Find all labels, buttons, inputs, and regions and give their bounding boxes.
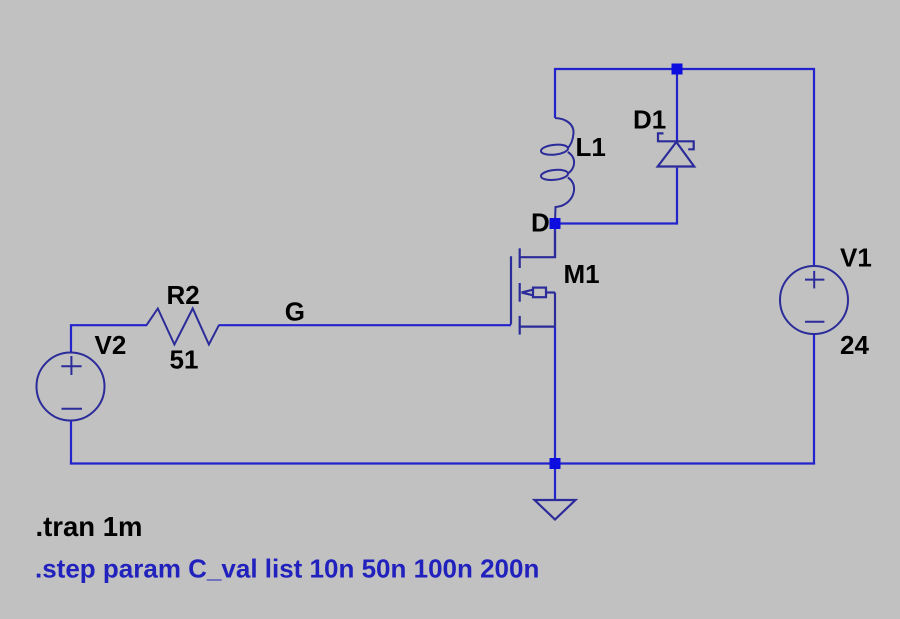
- voltage source V2: [37, 353, 105, 421]
- svg-text:24: 24: [840, 330, 869, 360]
- wire: gate wire R2 to M1 gate: [219, 324, 512, 326]
- channel bar top: [519, 248, 521, 268]
- wire: V2 bottom to bottom rail: [70, 420, 72, 465]
- voltage source V1: [780, 266, 848, 334]
- channel bar bottom: [519, 316, 521, 335]
- source lead: [520, 326, 555, 328]
- wire: bottom junction to ground: [554, 464, 556, 501]
- wire: top rail: [555, 69, 814, 267]
- anode triangle: [658, 142, 695, 167]
- wire: top rail junction down to D1 cathode: [676, 69, 678, 143]
- svg-text:V2: V2: [95, 330, 127, 360]
- wire: D node to M1 drain: [554, 224, 556, 258]
- svg-text:D: D: [531, 208, 550, 238]
- nmos transistor M1: [511, 230, 555, 335]
- wire: V2 top to corner: [71, 325, 147, 353]
- cathode bar with hooks: [658, 133, 694, 149]
- inductor L1: [540, 118, 574, 224]
- ground: [535, 500, 576, 520]
- svg-text:V1: V1: [840, 243, 872, 273]
- channel bar middle: [519, 283, 521, 302]
- schottky diode D1: [658, 133, 695, 166]
- svg-text:M1: M1: [564, 259, 600, 289]
- svg-text:L1: L1: [576, 132, 606, 162]
- body lead with arrow: [554, 293, 556, 327]
- resistor R2: [147, 309, 219, 345]
- drain lead: [520, 230, 555, 257]
- junction node at bottom rail: [550, 458, 561, 469]
- wire: bottom rail: [70, 462, 815, 464]
- svg-text:D1: D1: [633, 105, 666, 135]
- junction node D: [550, 218, 561, 229]
- wire: D1 anode down to D-node wire: [555, 168, 677, 224]
- svg-text:.tran 1m: .tran 1m: [36, 511, 143, 542]
- svg-text:R2: R2: [167, 280, 200, 310]
- junction node at D1 top: [672, 64, 683, 75]
- svg-text:51: 51: [170, 345, 199, 375]
- svg-text:G: G: [285, 296, 305, 326]
- svg-text:.step param C_val list 10n 50n: .step param C_val list 10n 50n 100n 200n: [35, 554, 539, 584]
- wire: M1 source to bottom rail: [554, 327, 556, 464]
- wire: V1 bottom to bottom rail: [813, 333, 815, 465]
- gate bar: [510, 256, 512, 324]
